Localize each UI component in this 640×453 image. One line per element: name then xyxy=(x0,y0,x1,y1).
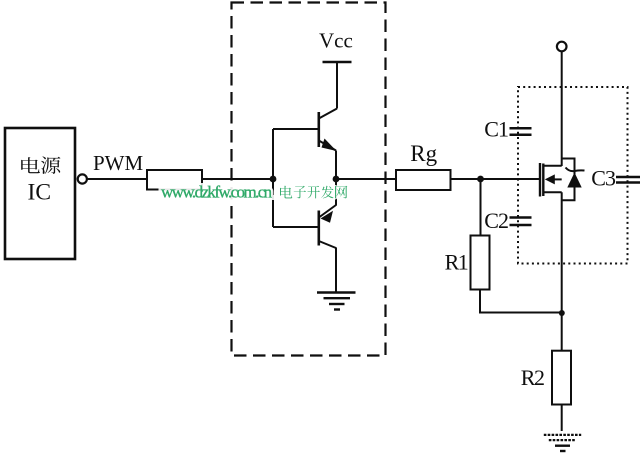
dotted box: MOSFET with parasitic capacitances xyxy=(518,87,628,264)
ground symbol (source divider) xyxy=(544,435,581,451)
node: driver input junction xyxy=(270,176,277,183)
input series resistor (unlabeled) xyxy=(147,170,202,190)
wire: output node to Q2 emitter xyxy=(335,179,337,206)
wire: MOSFET source down through node to R2 xyxy=(561,192,563,350)
wire: R2 to ground xyxy=(561,405,563,432)
wire: terminal to MOSFET drain xyxy=(561,52,563,167)
transistor Q2 (PNP, lower) xyxy=(319,205,336,248)
terminal circle (drain supply) xyxy=(557,42,567,52)
svg-text:IC: IC xyxy=(28,180,52,206)
wire: Q2 base lead xyxy=(273,226,319,228)
wire: Q2 collector to ground xyxy=(335,248,337,293)
resistor Rg xyxy=(396,170,451,190)
wire: gate node down to R1 xyxy=(480,179,482,236)
svg-text:C2: C2 xyxy=(484,208,508,233)
svg-text:Vcc: Vcc xyxy=(319,29,353,53)
capacitor C1 (gate-drain, on box edge) xyxy=(510,128,532,135)
wire: PWM pin to input resistor xyxy=(87,178,147,180)
node: source/divider junction xyxy=(559,310,565,316)
wire: R1 bottom to source node xyxy=(480,290,562,313)
svg-text:PWM: PWM xyxy=(93,151,144,175)
resistor R1 xyxy=(471,236,490,290)
capacitor C3 (drain-source, on box edge) xyxy=(616,177,640,183)
node: output junction of emitters xyxy=(333,176,340,183)
svg-text:www.dzkfw.com.cn: www.dzkfw.com.cn xyxy=(161,183,273,202)
wire: Q1 emitter down to output node xyxy=(335,151,337,180)
svg-text:R1: R1 xyxy=(445,250,468,275)
svg-text:C1: C1 xyxy=(484,117,508,142)
wire: bases tie line (vertical) xyxy=(272,129,274,227)
wire: driver output to Rg xyxy=(336,178,396,180)
PWM output pin circle xyxy=(78,174,87,183)
watermark www.dzkfw.com.cn 电子开发网 xyxy=(161,183,347,202)
transistor Q1 (NPN, upper) xyxy=(319,109,337,152)
resistor R2 xyxy=(552,351,571,405)
wire: Q1 base lead xyxy=(273,128,319,130)
wire: Rg to gate node xyxy=(451,178,541,180)
ground symbol (driver stage) xyxy=(317,293,356,310)
wire: Vcc rail to Q1 collector xyxy=(336,62,338,109)
dashed box: totem-pole driver stage xyxy=(232,3,386,356)
capacitor C2 (gate-source, on box edge) xyxy=(510,218,532,226)
body diode branch wires xyxy=(562,159,575,201)
power IC block (电源 IC) xyxy=(5,128,75,259)
svg-text:C3: C3 xyxy=(591,166,616,191)
Vcc supply rail bar xyxy=(323,61,352,63)
wire: input resistor to driver input node xyxy=(202,178,273,180)
svg-text:Rg: Rg xyxy=(410,141,437,166)
MOSFET Q3 (N-channel) xyxy=(540,163,562,197)
svg-text:R2: R2 xyxy=(521,365,544,390)
body diode (zener-style) xyxy=(566,168,585,188)
node: gate junction xyxy=(477,176,484,183)
